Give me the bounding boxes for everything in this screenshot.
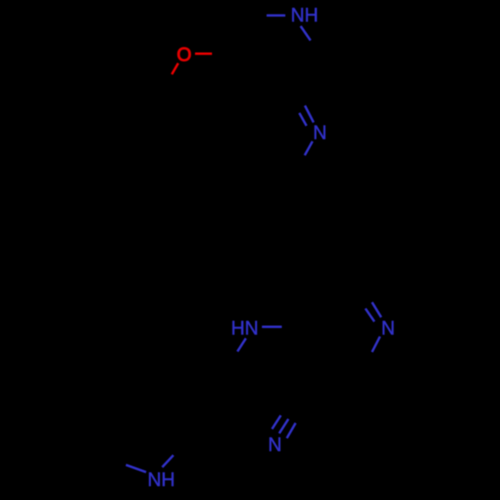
svg-text:N: N	[381, 319, 395, 340]
svg-text:NH: NH	[291, 6, 318, 27]
svg-text:N: N	[313, 123, 327, 144]
svg-text:O: O	[177, 45, 192, 66]
svg-text:N: N	[268, 435, 282, 456]
svg-text:HN: HN	[231, 318, 258, 339]
svg-text:NH: NH	[148, 470, 175, 491]
